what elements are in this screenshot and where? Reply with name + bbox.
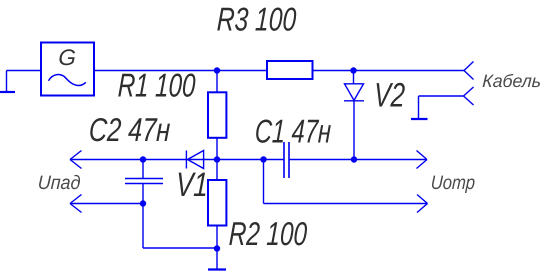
svg-text:C2 47н: C2 47н xyxy=(88,112,171,149)
svg-text:V2: V2 xyxy=(373,77,406,114)
svg-text:V1: V1 xyxy=(175,167,209,204)
svg-text:R1 100: R1 100 xyxy=(117,68,196,105)
svg-text:Uпад: Uпад xyxy=(37,171,81,193)
svg-text:G: G xyxy=(58,45,77,70)
svg-text:Кабель: Кабель xyxy=(482,71,542,91)
svg-text:Uотр: Uотр xyxy=(430,172,475,193)
svg-text:C1 47н: C1 47н xyxy=(254,114,332,151)
svg-text:R3 100: R3 100 xyxy=(216,2,297,38)
svg-text:R2 100: R2 100 xyxy=(228,216,307,252)
